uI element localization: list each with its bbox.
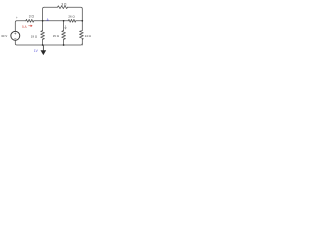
wire: R5 branch top stub (63, 21, 65, 31)
resistor R2 (19 ohm, vertical branch under node A) (41, 31, 45, 40)
svg-text:3 Ω: 3 Ω (29, 14, 35, 18)
junction dot: R2 bottom on bottom wire (42, 44, 44, 46)
current arrow: faint downward mark beside R5 branch (65, 25, 67, 29)
arrow: downward reference arrow below bottom wire (41, 45, 45, 54)
svg-text:30 V: 30 V (1, 34, 7, 38)
wire: right edge lower stub (81, 39, 83, 45)
svg-text:+: + (16, 16, 18, 20)
wire: R5 branch bottom stub (63, 39, 65, 45)
wire: right edge upper stub (81, 21, 83, 31)
resistor R4 (26 ohm, horizontal on main wire) (68, 19, 76, 22)
svg-text:15 Ω: 15 Ω (53, 34, 60, 38)
resistor R3 (3 ohm, horizontal on top wire) (58, 6, 68, 9)
wire: top loop left vertical riser at node A (43, 7, 45, 21)
wire: bottom return wire from source to right edge (15, 40, 82, 45)
wire: R4 to right edge junction (76, 20, 83, 22)
wire: R1 to node A (34, 20, 43, 22)
current label: 5 A (red) under R1 (22, 25, 27, 29)
polarity marks: plus / minus inside source V1 (14, 33, 16, 39)
svg-text:26 Ω: 26 Ω (68, 15, 75, 19)
wire: source V1 top lead up to main wire corner (15, 21, 16, 32)
resistor R6 (14 ohm, vertical on right edge) (80, 31, 84, 40)
junction dot: R5 top on main wire (63, 20, 65, 22)
voltage source V1 (30 V circle) (11, 31, 20, 40)
wire: top wire left segment (44, 6, 57, 8)
svg-text:19 Ω: 19 Ω (31, 34, 38, 38)
wire: main wire, source corner to resistor R1 (17, 20, 26, 22)
svg-text:14 Ω: 14 Ω (85, 34, 92, 38)
current arrow: rightward (red) next to 5 A label (28, 25, 32, 27)
resistor R1 (3 ohm, horizontal on main wire) (26, 19, 34, 22)
wire: top wire right segment with corner down to main wire (68, 7, 83, 21)
wire: main wire, node A to resistor R4 (43, 20, 69, 22)
resistor R5 (15 ohm, vertical middle branch) (62, 31, 66, 40)
svg-text:3 Ω: 3 Ω (61, 2, 67, 6)
wire: R2 branch top stub from node A (42, 21, 44, 31)
junction dot: R5 bottom on bottom wire (63, 44, 65, 46)
junction dot: right edge on main wire (81, 20, 83, 22)
junction dot: node A on main wire (42, 20, 44, 22)
wire: R2 branch bottom stub (42, 39, 44, 45)
